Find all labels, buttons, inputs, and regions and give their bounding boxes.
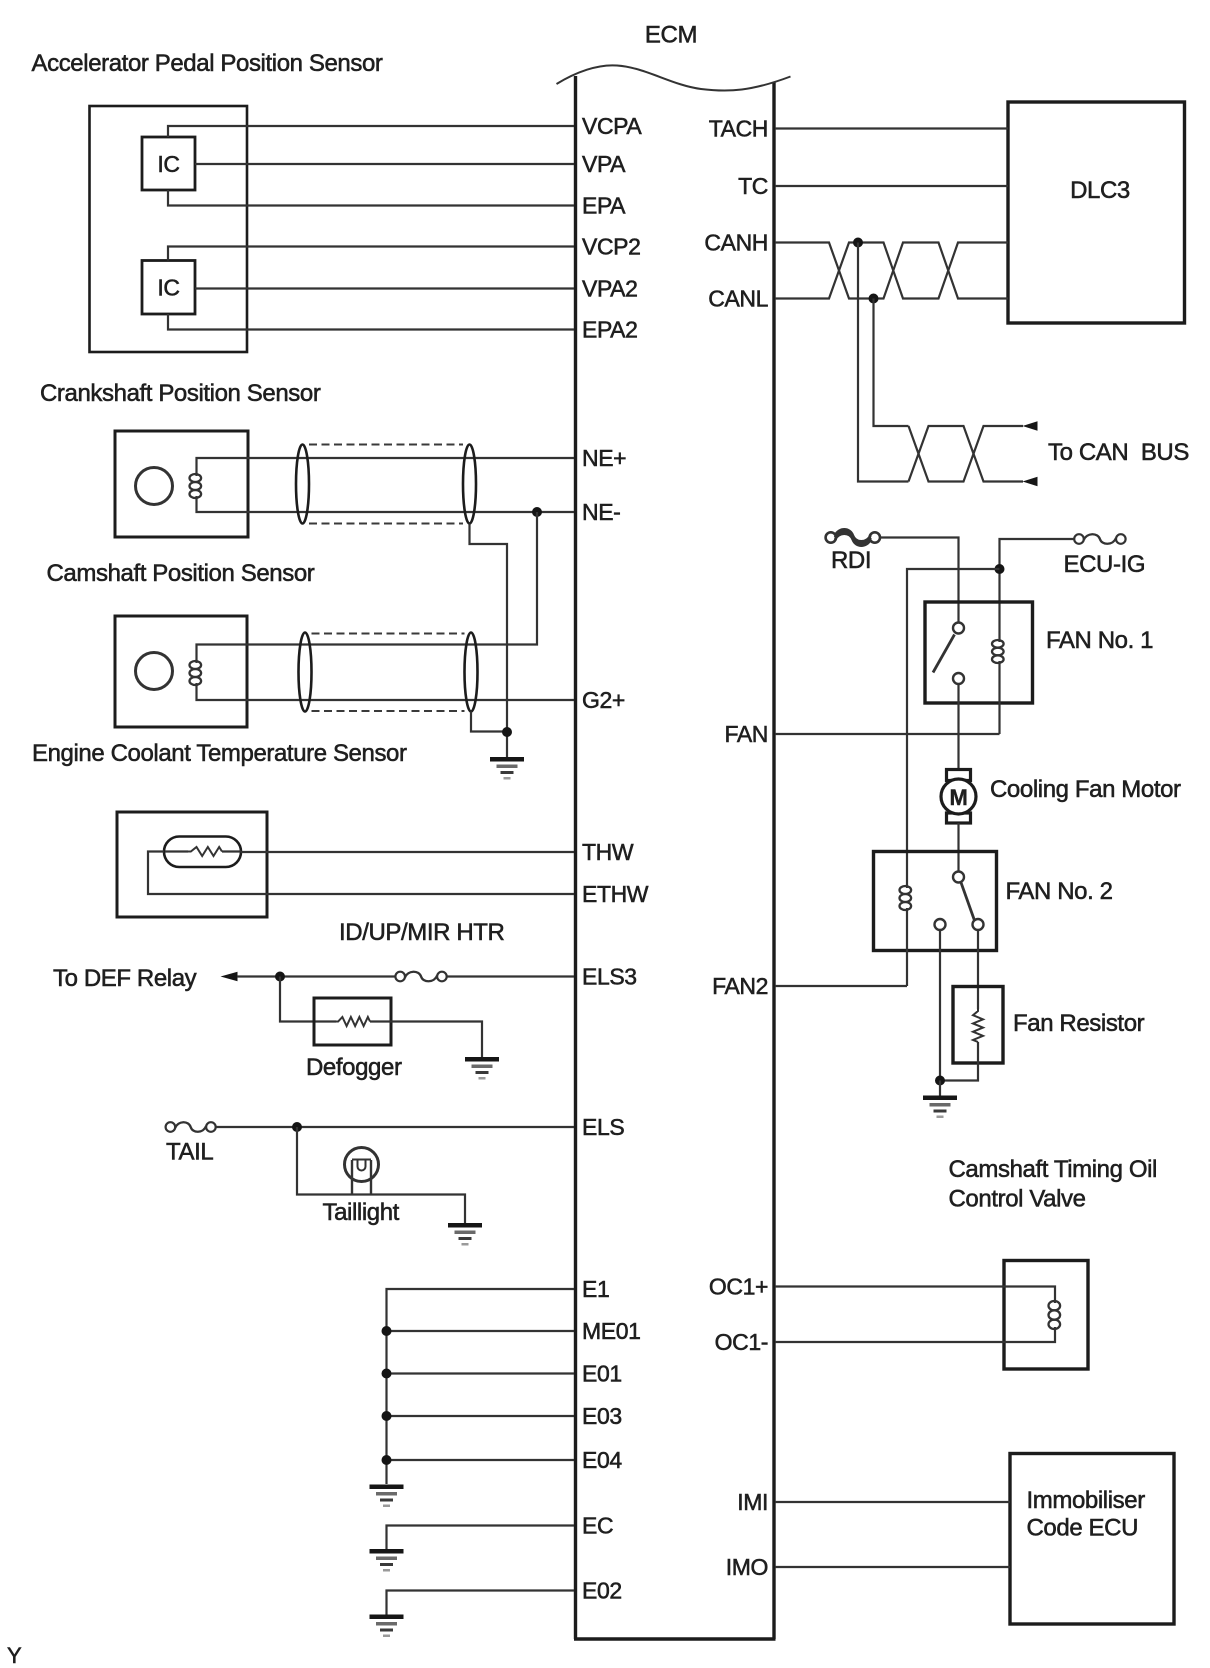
svg-text:ME01: ME01	[582, 1318, 640, 1344]
wire IMI	[775, 1501, 1010, 1503]
svg-text:E04: E04	[582, 1447, 622, 1473]
camshaft shield oval left	[299, 633, 312, 712]
defogger box	[314, 998, 391, 1045]
ground E02	[370, 1615, 404, 1638]
camshaft sensor pickup circle	[136, 653, 173, 690]
wire VPA	[195, 163, 574, 165]
ECM pin label FAN2	[712, 973, 768, 999]
node E01 junction	[382, 1369, 392, 1379]
ground E bus	[370, 1485, 404, 1508]
Crankshaft Position Sensor title	[40, 380, 321, 407]
svg-text:VPA: VPA	[582, 151, 626, 177]
svg-text:OC1+: OC1+	[709, 1274, 768, 1300]
ECM pin label VCPA	[582, 113, 642, 139]
camshaft shield oval right	[465, 633, 478, 712]
node NE- junction	[532, 507, 542, 517]
wire VPA2	[195, 287, 574, 289]
wire VCP2	[168, 247, 574, 261]
svg-text:VCP2: VCP2	[582, 234, 640, 260]
page marker Y	[7, 1643, 22, 1668]
ECM box top break squiggle	[557, 65, 791, 90]
taillight bulb legs	[352, 1160, 371, 1195]
svg-text:Camshaft Timing Oil: Camshaft Timing Oil	[949, 1156, 1157, 1183]
coolant sensor box	[117, 812, 267, 917]
node E04 junction	[382, 1455, 392, 1465]
relay 2 switch contact top	[953, 872, 964, 883]
wire CAN bus twisted top	[909, 426, 1024, 482]
wire CAN bus twisted bottom	[909, 426, 1024, 482]
ground fan	[923, 1096, 957, 1119]
svg-text:ECM: ECM	[645, 22, 697, 49]
ECM pin label EPA	[582, 193, 626, 219]
node E03 junction	[382, 1411, 392, 1421]
crankshaft shield oval left	[296, 445, 309, 524]
crankshaft sensor pickup circle	[136, 468, 173, 505]
wire taillight branch	[297, 1127, 465, 1223]
ECM pin label ETHW	[582, 881, 649, 907]
svg-text:VPA2: VPA2	[582, 276, 638, 302]
ECM pin label THW	[582, 839, 634, 865]
svg-text:ECU-IG: ECU-IG	[1064, 551, 1146, 578]
wire E02	[387, 1591, 575, 1615]
ECM pin label VPA2	[582, 276, 638, 302]
svg-text:THW: THW	[582, 839, 634, 865]
IC 2 box	[142, 261, 195, 315]
Taillight label	[323, 1199, 400, 1226]
ECM pin label TC	[738, 173, 768, 199]
ECM pin label EPA2	[582, 317, 638, 343]
wire FAN	[775, 733, 1000, 735]
ECM label	[645, 22, 697, 49]
fan resistor element R	[973, 1009, 983, 1042]
wire CAN bus branch 2	[874, 299, 909, 427]
wire motor to relay2	[957, 823, 959, 872]
node ME01 junction	[382, 1326, 392, 1336]
svg-text:IC: IC	[157, 275, 179, 301]
svg-text:Accelerator Pedal Position Sen: Accelerator Pedal Position Sensor	[32, 50, 383, 77]
ECM pin label IMI	[737, 1489, 768, 1515]
thermistor body	[164, 837, 241, 868]
Engine Coolant Temperature Sensor title	[32, 740, 407, 767]
ground shield	[490, 757, 524, 780]
svg-text:DLC3: DLC3	[1070, 177, 1130, 204]
ECM pin label CANH	[704, 230, 768, 256]
Defogger label	[306, 1054, 402, 1081]
crankshaft sensor box	[115, 431, 248, 537]
wire ECU-IG to FAN2 coil	[907, 569, 1000, 888]
DLC3 box	[1008, 102, 1185, 323]
wire G2+	[197, 683, 575, 700]
svg-text:E03: E03	[582, 1403, 622, 1429]
ECM pin label OC1-	[715, 1329, 768, 1355]
relay 1 coil L	[992, 640, 1004, 663]
relay FAN No. 2 box	[874, 852, 997, 951]
svg-text:Taillight: Taillight	[323, 1199, 400, 1226]
svg-text:NE+: NE+	[582, 445, 626, 471]
svg-text:FAN: FAN	[724, 721, 768, 747]
wire IMO	[775, 1566, 1010, 1568]
node CANH junction	[853, 238, 863, 248]
IC 2 label	[157, 275, 179, 301]
svg-text:E01: E01	[582, 1361, 622, 1387]
ECM pin label E03	[582, 1403, 622, 1429]
wire NE-	[197, 496, 575, 512]
wire crankshaft shield drain	[470, 524, 508, 733]
wire ELS	[215, 1126, 574, 1128]
svg-text:VCPA: VCPA	[582, 113, 642, 139]
accelerator pedal position sensor box	[90, 106, 248, 352]
svg-text:Engine Coolant Temperature Sen: Engine Coolant Temperature Sensor	[32, 740, 407, 767]
svg-text:Code ECU: Code ECU	[1027, 1515, 1139, 1542]
relay 1 switch blade	[933, 635, 955, 673]
ECM pin label E1	[582, 1276, 609, 1302]
oil control valve coil L	[1049, 1301, 1061, 1329]
wire defogger feed	[280, 977, 336, 1022]
ECM pin label CANL	[708, 286, 768, 312]
svg-text:Control Valve: Control Valve	[949, 1186, 1086, 1213]
crankshaft shield dashed top	[309, 444, 463, 446]
wire E03	[387, 1415, 575, 1417]
ECM pin label ELS3	[582, 964, 637, 990]
camshaft shield dashed top	[312, 633, 465, 635]
wire ETHW	[148, 852, 574, 895]
svg-text:EC: EC	[582, 1513, 613, 1539]
wire EPA2	[168, 314, 574, 330]
ECM pin label G2+	[582, 687, 625, 713]
svg-text:Defogger: Defogger	[306, 1054, 402, 1081]
relay 1 switch contact top	[953, 623, 964, 634]
Cooling Fan Motor label	[990, 776, 1181, 803]
svg-text:TACH: TACH	[709, 116, 768, 142]
svg-text:IMO: IMO	[726, 1554, 768, 1580]
Fan Resistor label	[1013, 1010, 1145, 1037]
wire relay1 coil to FAN	[998, 661, 1000, 734]
svg-text:To CAN BUS: To CAN BUS	[1048, 439, 1189, 466]
ECM box bottom edge (wire)	[574, 1637, 776, 1641]
relay 2 coil L	[900, 886, 912, 910]
oil control valve box	[1004, 1261, 1088, 1370]
node taillight junction	[292, 1122, 302, 1132]
svg-text:To DEF Relay: To DEF Relay	[53, 965, 197, 992]
svg-text:Crankshaft Position Sensor: Crankshaft Position Sensor	[40, 380, 321, 407]
wire CANL twisted pair	[775, 243, 1008, 299]
svg-text:EPA2: EPA2	[582, 317, 638, 343]
wire camshaft shield drain	[471, 712, 507, 732]
svg-text:ELS: ELS	[582, 1114, 624, 1140]
svg-text:Immobiliser: Immobiliser	[1027, 1487, 1146, 1514]
To CAN BUS label	[1048, 439, 1189, 466]
svg-text:Cooling Fan Motor: Cooling Fan Motor	[990, 776, 1181, 803]
DLC3 label	[1070, 177, 1130, 204]
wire TC	[775, 185, 1008, 187]
ECM pin label TACH	[709, 116, 768, 142]
wire E04	[387, 1459, 575, 1461]
cooling fan motor M1	[941, 770, 976, 824]
svg-text:Fan Resistor: Fan Resistor	[1013, 1010, 1145, 1037]
IC 1 label	[157, 151, 179, 177]
svg-text:NE-: NE-	[582, 499, 620, 525]
wire CAN bus branch 1	[858, 243, 909, 482]
svg-text:G2+: G2+	[582, 687, 625, 713]
ECM pin label E02	[582, 1578, 622, 1604]
svg-text:IC: IC	[157, 151, 179, 177]
camshaft shield dashed bottom	[312, 710, 465, 712]
crankshaft shield dashed bottom	[309, 523, 463, 525]
wire FAN2	[775, 985, 907, 987]
wire VCPA	[168, 126, 574, 137]
ECM pin label NE-	[582, 499, 620, 525]
ID/UP/MIR HTR label	[339, 919, 505, 946]
svg-text:ELS3: ELS3	[582, 964, 637, 990]
IC 1 box	[142, 137, 195, 190]
thermistor element R	[165, 847, 241, 856]
relay 2 switch blade	[961, 883, 975, 921]
wire E1 and ground bus	[387, 1289, 575, 1484]
svg-text:RDI: RDI	[831, 547, 871, 574]
wire EC	[387, 1526, 575, 1550]
Camshaft Position Sensor title	[47, 560, 315, 587]
ECU-IG label	[1064, 551, 1146, 578]
FAN No. 2 label	[1006, 878, 1113, 905]
ECM pin label ME01	[582, 1318, 640, 1344]
ECM box left edge (wire)	[574, 76, 577, 1639]
Camshaft Timing Oil Control Valve label	[949, 1156, 1157, 1213]
relay 1 switch contact bottom	[953, 673, 964, 684]
immobiliser code ECU box	[1010, 1454, 1174, 1625]
wire THW	[241, 851, 574, 853]
ECM pin label IMO	[726, 1554, 768, 1580]
wire ME01	[387, 1330, 575, 1332]
wire OC1-	[775, 1327, 1055, 1342]
node ECU-IG junction	[995, 564, 1005, 574]
relay 2 switch contact left	[935, 919, 946, 930]
fuse TAIL	[166, 1122, 216, 1132]
relay FAN No. 1 box	[925, 602, 1033, 703]
ECM box right edge (wire)	[772, 82, 775, 1639]
svg-text:FAN2: FAN2	[712, 973, 768, 999]
wire NE+	[197, 458, 575, 476]
svg-text:FAN No. 2: FAN No. 2	[1006, 878, 1113, 905]
svg-text:E1: E1	[582, 1276, 609, 1302]
ECM pin label ELS	[582, 1114, 624, 1140]
svg-text:Camshaft Position Sensor: Camshaft Position Sensor	[47, 560, 315, 587]
wire OC1+	[775, 1287, 1055, 1304]
defogger heater element R	[336, 1017, 370, 1026]
arrow CAN bus lower	[1023, 477, 1038, 486]
wire E01	[387, 1372, 575, 1374]
wire ELS3 to DEF relay	[237, 975, 396, 977]
svg-text:OC1-: OC1-	[715, 1329, 768, 1355]
wire RDI to relay switch	[879, 538, 958, 623]
svg-text:IMI: IMI	[737, 1489, 768, 1515]
svg-text:TC: TC	[738, 173, 768, 199]
svg-text:EPA: EPA	[582, 193, 626, 219]
wire to fan ground	[939, 1081, 941, 1096]
svg-text:TAIL: TAIL	[166, 1139, 213, 1166]
Accelerator Pedal Position Sensor title	[32, 50, 383, 77]
svg-text:FAN No. 1: FAN No. 1	[1046, 627, 1153, 654]
RDI label	[831, 547, 871, 574]
ground taillight	[448, 1223, 482, 1246]
ECM pin label OC1+	[709, 1274, 768, 1300]
svg-text:M: M	[950, 785, 968, 810]
wire relay2 left contact to ground	[939, 930, 941, 1081]
wire CANH twisted pair	[775, 243, 1008, 299]
wire shield to ground	[506, 732, 508, 757]
To DEF Relay label	[53, 965, 197, 992]
fuse ECU-IG	[1074, 534, 1125, 544]
crankshaft sensor coil L1	[190, 474, 202, 498]
relay 2 switch contact right	[973, 919, 984, 930]
svg-text:CANH: CANH	[704, 230, 768, 256]
ECM pin label FAN	[724, 721, 768, 747]
taillight bulb circle	[345, 1148, 379, 1182]
wire EPA	[168, 190, 574, 206]
FAN No. 1 label	[1046, 627, 1153, 654]
wire defogger to ground	[370, 1022, 482, 1058]
Immobiliser Code ECU label	[1027, 1487, 1146, 1542]
wire TACH	[775, 127, 1008, 129]
ECM pin label VCP2	[582, 234, 640, 260]
svg-text:ID/UP/MIR HTR: ID/UP/MIR HTR	[339, 919, 505, 946]
arrow to DEF relay	[221, 972, 238, 982]
node fan ground junction	[935, 1076, 945, 1086]
wire resistor to ground	[940, 1042, 978, 1081]
wire relay2 coil to FAN2	[906, 908, 908, 986]
wire camshaft signal to NE-	[197, 512, 538, 663]
node CANL junction	[869, 294, 879, 304]
ECM pin label E04	[582, 1447, 622, 1473]
wire ECU-IG to coil	[1000, 539, 1075, 642]
ECM pin label NE+	[582, 445, 626, 471]
svg-text:ETHW: ETHW	[582, 881, 649, 907]
camshaft sensor box	[115, 616, 247, 727]
fuse ELS3	[395, 972, 446, 982]
fusible link RDI	[826, 529, 880, 545]
camshaft sensor coil L2	[190, 661, 202, 685]
svg-text:Y: Y	[7, 1643, 22, 1668]
ECM pin label VPA	[582, 151, 626, 177]
ground EC	[370, 1549, 404, 1572]
fan resistor box	[953, 987, 1003, 1064]
TAIL label	[166, 1139, 213, 1166]
ECM pin label E01	[582, 1361, 622, 1387]
node shield junction	[502, 727, 512, 737]
svg-text:E02: E02	[582, 1578, 622, 1604]
ground defogger	[465, 1057, 499, 1080]
ECM pin label EC	[582, 1513, 613, 1539]
arrow CAN bus upper	[1023, 421, 1038, 430]
wire relay2 right contact to resistor	[977, 930, 979, 1009]
wire ELS3	[446, 975, 574, 977]
wire relay1 switch to motor	[957, 684, 959, 769]
svg-text:CANL: CANL	[708, 286, 768, 312]
crankshaft shield oval right	[463, 445, 476, 524]
node defogger junction	[275, 972, 285, 982]
taillight filament	[352, 1160, 371, 1171]
